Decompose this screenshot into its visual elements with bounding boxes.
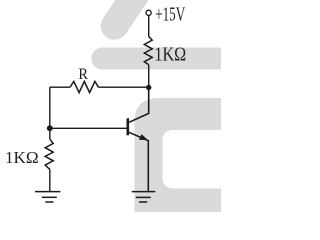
svg-text:1KΩ: 1KΩ	[154, 43, 186, 65]
watermark diagonal stripe (background logo)	[114, 0, 141, 26]
wire resistor to node	[148, 65, 150, 88]
supply terminal circle	[146, 10, 151, 15]
wire rail to resistor	[49, 128, 51, 139]
top wire left segment	[50, 86, 70, 88]
svg-text:1KΩ: 1KΩ	[5, 148, 39, 167]
watermark rounded ring (background logo)	[135, 98, 251, 230]
left rail vertical	[49, 87, 51, 128]
wire resistor to ground	[49, 169, 51, 191]
svg-text:R: R	[78, 66, 88, 83]
node collector junction dot	[146, 85, 151, 90]
node base junction dot	[47, 125, 53, 131]
base wire	[50, 127, 127, 129]
svg-text:+15V: +15V	[155, 4, 185, 26]
transistor emitter lead	[129, 132, 148, 191]
ground (left)	[35, 192, 60, 202]
resistor R	[70, 81, 99, 92]
transistor emitter arrowhead	[139, 134, 148, 140]
watermark horizontal stripe (background logo)	[91, 48, 231, 70]
resistor 1K (base)	[45, 139, 53, 169]
resistor 1K (collector)	[144, 36, 152, 64]
wire supply to resistor	[148, 15, 150, 36]
transistor Q1 base bar	[127, 118, 130, 135]
transistor collector lead	[129, 88, 149, 123]
top wire right segment	[99, 86, 149, 88]
ground (right)	[132, 192, 156, 202]
